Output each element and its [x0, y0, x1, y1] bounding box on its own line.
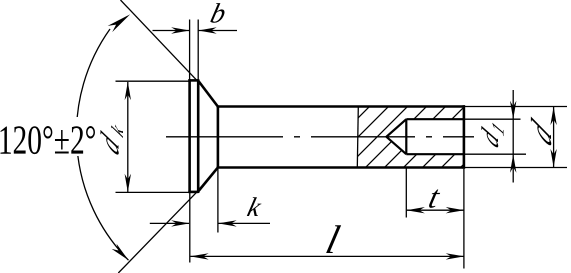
svg-text:120°±2°: 120°±2° [0, 117, 96, 163]
